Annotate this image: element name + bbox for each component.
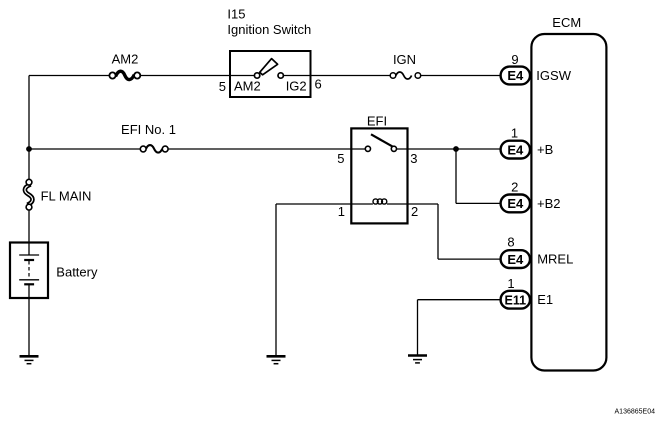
- svg-text:2: 2: [511, 180, 518, 195]
- fusible link FL MAIN: [25, 179, 33, 210]
- svg-text:FL MAIN: FL MAIN: [41, 189, 92, 204]
- connector E4 pin 2 (+B2): [501, 195, 530, 213]
- fuse AM2: [109, 71, 140, 79]
- connector E4 pin 9 (IGSW): [501, 67, 530, 85]
- wire: branch to connector E4-2 (+B2): [456, 202, 502, 204]
- svg-text:2: 2: [411, 204, 418, 219]
- ground (relay coil pin 1): [267, 356, 286, 363]
- svg-text:AM2: AM2: [112, 52, 139, 67]
- ECM body U1: [531, 34, 606, 371]
- svg-text:IGSW: IGSW: [536, 68, 571, 83]
- wire: fuse EFI No. 1 to EFI relay pin 5: [168, 148, 365, 150]
- connector E11 pin 1 (E1): [501, 291, 530, 309]
- svg-text:IG2: IG2: [286, 79, 307, 94]
- wire: +B junction drop to +B2 level: [455, 149, 457, 203]
- svg-text:A136865E04: A136865E04: [615, 409, 656, 416]
- wire: fuse IGN to ECM connector E4-9: [421, 75, 502, 77]
- ignition switch contacts and lever: [254, 59, 283, 79]
- wire: E1 vertical down to ground: [417, 300, 419, 355]
- svg-text:I15: I15: [227, 7, 245, 22]
- svg-text:+B: +B: [537, 142, 553, 157]
- svg-text:+B2: +B2: [537, 196, 561, 211]
- ignition switch I15 box: [230, 51, 311, 97]
- wire: battery negative to ground: [28, 284, 30, 356]
- wire: connector E11-1 (E1) lead left: [418, 299, 503, 301]
- svg-text:ECM: ECM: [552, 15, 581, 30]
- svg-text:E4: E4: [507, 196, 524, 211]
- svg-text:3: 3: [410, 151, 417, 166]
- wire: coil to relay pin 2 and out to MREL drop: [387, 203, 438, 205]
- svg-text:MREL: MREL: [537, 252, 573, 267]
- connector E4 pin 1 (+B): [501, 141, 530, 159]
- svg-text:1: 1: [507, 276, 514, 291]
- wire: top rail from battery node to fuse AM2: [29, 75, 110, 77]
- svg-text:6: 6: [315, 77, 322, 92]
- fuse EFI No. 1: [140, 145, 168, 153]
- wire: fusible link FL MAIN to battery box: [28, 210, 30, 255]
- connector E4 pin 8 (MREL): [501, 250, 530, 268]
- wire: relay coil pin 1 lead out to ground drop: [276, 203, 373, 205]
- svg-text:E1: E1: [537, 292, 553, 307]
- svg-text:E4: E4: [507, 142, 524, 157]
- wire: to connector E4-8 (MREL): [438, 258, 502, 260]
- wire: EFI relay pin 3 to junction node and connector E4-1: [396, 148, 502, 150]
- svg-text:9: 9: [511, 52, 518, 67]
- svg-text:EFI No. 1: EFI No. 1: [121, 122, 176, 137]
- node: junction of battery rail and EFI No. 1 feed: [26, 146, 32, 152]
- svg-text:5: 5: [219, 79, 226, 94]
- relay switch contacts and lever: [365, 134, 396, 151]
- battery box: [10, 243, 48, 299]
- battery cell symbol: [19, 255, 39, 284]
- wire: relay pin 1 vertical down to ground: [275, 204, 277, 356]
- relay coil: [373, 199, 387, 204]
- ground (E1): [408, 356, 427, 363]
- svg-text:E4: E4: [507, 68, 524, 83]
- relay EFI box: [351, 128, 407, 223]
- svg-text:AM2: AM2: [234, 79, 261, 94]
- svg-text:Battery: Battery: [56, 265, 98, 280]
- svg-text:IGN: IGN: [393, 52, 416, 67]
- svg-text:Ignition Switch: Ignition Switch: [227, 22, 311, 37]
- svg-text:E11: E11: [505, 293, 527, 307]
- svg-text:8: 8: [507, 235, 514, 250]
- svg-text:E4: E4: [507, 252, 524, 267]
- svg-text:1: 1: [511, 126, 518, 141]
- svg-text:5: 5: [337, 151, 344, 166]
- fuse IGN: [390, 72, 421, 79]
- node: +B branch junction: [453, 146, 459, 152]
- wire: junction to fuse EFI No. 1: [29, 148, 140, 150]
- wire: ignition switch IG2 contact to fuse IGN: [283, 75, 390, 77]
- svg-text:1: 1: [338, 204, 345, 219]
- svg-text:EFI: EFI: [367, 114, 387, 129]
- wire: left vertical rail, top section: [28, 76, 30, 180]
- wire: MREL drop vertical: [437, 204, 439, 259]
- ground (battery): [20, 356, 39, 363]
- wire: fuse AM2 to ignition switch pin 5 contact: [140, 75, 255, 77]
